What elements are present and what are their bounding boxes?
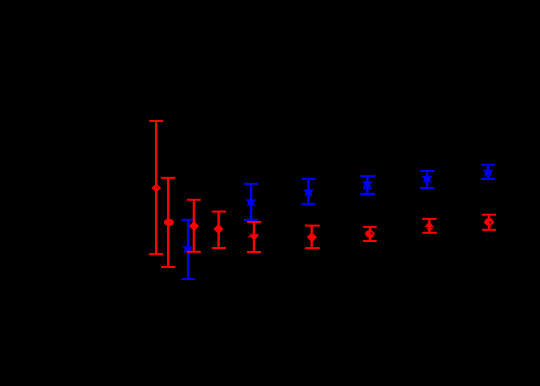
red point R9 marker hole — [489, 221, 491, 223]
red point R4 top cap — [212, 211, 227, 213]
red point R5 triangle-up residue nub — [249, 236, 251, 238]
red point R1 diamond marker — [152, 184, 161, 192]
red point R1 marker hole — [157, 187, 158, 188]
red point R4 bottom cap — [212, 247, 226, 249]
red point R7 error bar line — [369, 227, 371, 241]
blue point B2 error bar line — [250, 184, 252, 220]
red point R9 overlapping-triangles blob marker — [484, 218, 494, 225]
red point R2 error bar line — [167, 178, 169, 267]
red point R7 overlapping-triangles blob marker — [365, 230, 374, 237]
red point R6 diamond marker — [307, 233, 316, 242]
blue point B4 second-star residue dash left — [363, 188, 365, 189]
red point R8 error bar line — [428, 219, 430, 233]
blue point B5 star marker — [423, 173, 432, 182]
blue point B4 bottom cap — [360, 193, 375, 195]
blue point B1 error bar line — [187, 220, 189, 279]
red point R9 bottom cap — [482, 229, 496, 231]
red point R8 top cap — [422, 218, 437, 220]
blue point B4 error bar line — [366, 176, 368, 194]
red point R9 triangle-down residue nub — [490, 226, 492, 227]
red point R8 bottom cap — [422, 232, 437, 234]
blue point B6 top cap — [481, 164, 495, 166]
blue point B3 error bar line — [307, 179, 309, 204]
blue point B4 star marker — [363, 178, 372, 187]
blue point B4 top cap — [360, 175, 375, 177]
red point R7 top cap — [363, 226, 377, 228]
blue point B2 top cap — [244, 183, 258, 185]
red point R6 error bar line — [311, 226, 313, 249]
blue point B3 bottom cap — [301, 203, 315, 205]
blue point B5 top cap — [420, 170, 435, 172]
red point R9 top cap — [482, 214, 496, 216]
blue point B4 second-star residue dash right — [369, 188, 372, 189]
red point R6 top cap — [305, 225, 320, 227]
red point R8 triangle-down marker — [427, 228, 433, 230]
blue point B6 error bar line — [487, 165, 489, 179]
red point R5 error bar line — [253, 222, 255, 252]
red point R2 circle marker — [164, 219, 174, 226]
red point R3 bottom cap — [187, 251, 201, 253]
red point R5 triangle-down marker — [250, 235, 259, 241]
blue point B2 star marker — [246, 196, 255, 205]
blue point B5 error bar line — [426, 171, 428, 188]
blue point B1 star marker — [183, 243, 192, 252]
red point R4 diamond marker — [214, 224, 223, 233]
red point R3 diamond marker — [189, 221, 198, 230]
blue point B2 bottom cap — [244, 219, 258, 221]
blue point B1 bottom cap — [181, 278, 195, 280]
red point R1 error bar line — [155, 121, 157, 254]
blue point B6 bottom cap — [481, 178, 495, 180]
red point R3 error bar line — [193, 200, 195, 252]
blue point B3 second-star residue dash — [307, 196, 310, 197]
blue point B3 star marker — [304, 186, 313, 195]
blue point B3 top cap — [301, 178, 315, 180]
red point R6 bottom cap — [305, 247, 320, 249]
red point R3 top cap — [187, 199, 201, 201]
red point R2 bottom cap — [161, 266, 175, 268]
red point R7 marker hole — [371, 232, 373, 234]
red point R4 error bar line — [217, 212, 219, 248]
red point R2 top cap — [161, 177, 175, 179]
red point R5 bottom cap — [247, 251, 261, 253]
blue point B6 star marker — [483, 167, 492, 176]
red point R7 bottom cap — [363, 240, 377, 242]
red point R1 top cap — [149, 120, 163, 122]
blue point B1 top cap — [181, 219, 195, 221]
red point R8 triangle-up marker — [425, 222, 433, 227]
red point R1 bottom cap — [149, 253, 163, 255]
red point R9 error bar line — [488, 215, 490, 230]
blue point B5 bottom cap — [420, 187, 435, 189]
red point R5 top cap — [247, 221, 261, 223]
